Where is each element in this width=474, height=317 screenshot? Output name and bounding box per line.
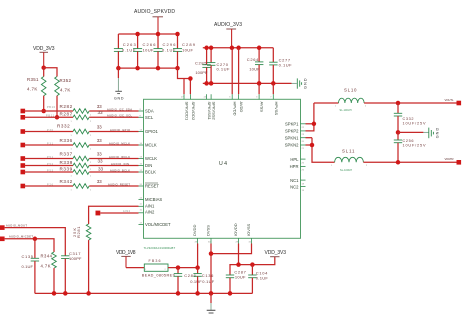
- wire AUDIO_MOUT to C317: [5, 228, 66, 256]
- svg-text:TLV320DAC3100IRHBT: TLV320DAC3100IRHBT: [144, 246, 176, 250]
- ground GND (digital): [207, 293, 216, 313]
- pin IOVSS: [246, 223, 252, 243]
- svg-text:4.7K: 4.7K: [27, 86, 37, 91]
- svg-text:0.1UF: 0.1UF: [256, 276, 269, 281]
- svg-text:C263: C263: [123, 42, 137, 47]
- wire AVSS stub from bus: [258, 83, 260, 94]
- wire to sideways ground: [398, 131, 429, 133]
- svg-text:0.1UF: 0.1UF: [202, 279, 215, 284]
- svg-text:MCLK: MCLK: [145, 143, 157, 148]
- port P53 (BCLK row): [21, 169, 54, 174]
- node SPKVDD bottom bus junctions: [116, 66, 180, 71]
- capacitor C256: [394, 132, 426, 162]
- svg-text:R351: R351: [27, 77, 39, 82]
- svg-text:33: 33: [97, 179, 102, 184]
- port VOUTL: [445, 98, 462, 105]
- pin SPKVSS1: [204, 94, 213, 120]
- pin DIN: [139, 163, 153, 168]
- svg-text:100PF: 100PF: [69, 256, 82, 261]
- wire DVDD drop: [197, 244, 199, 268]
- wire SDA row: [24, 110, 138, 112]
- svg-text:AUDIO_RESET: AUDIO_RESET: [108, 182, 130, 186]
- resistor R282: [60, 104, 103, 117]
- svg-text:GPIO1: GPIO1: [145, 129, 158, 134]
- node R352/SCL junction: [55, 115, 60, 120]
- port P26 (RESET row): [21, 183, 54, 188]
- node DVDD junction: [195, 265, 200, 270]
- pin SPKP1: [285, 122, 306, 130]
- svg-text:AUDIO_MCLK: AUDIO_MCLK: [109, 141, 130, 145]
- pin SPKVSS2: [211, 94, 217, 120]
- pin SCL: [139, 115, 154, 120]
- port PB11 (SCL row): [21, 115, 55, 120]
- svg-text:SPKVSS1: SPKVSS1: [207, 102, 212, 121]
- svg-text:HPR: HPR: [290, 164, 299, 169]
- wire SPKP1/SPKP2 join: [306, 103, 314, 131]
- port AUDIO_MOUT: [0, 224, 27, 230]
- node ground bus junctions: [204, 81, 275, 86]
- pin RESET: [139, 183, 160, 189]
- power symbol VDD_3V3 (top-left): [33, 46, 55, 68]
- svg-text:AUDIO_WCLK: AUDIO_WCLK: [109, 155, 130, 159]
- resistor R344: [41, 252, 57, 293]
- ground GND sideways (speaker filter): [429, 128, 440, 139]
- pin DVDD: [192, 225, 198, 244]
- pin MCLK: [139, 143, 157, 148]
- resistor R287: [60, 110, 103, 123]
- svg-text:C136: C136: [202, 273, 214, 278]
- node SPKP junction: [312, 122, 317, 127]
- wire AUDIO_3V3 bus: [203, 47, 273, 49]
- pin SDA: [139, 109, 154, 114]
- port P51 (WCLK row): [21, 156, 54, 161]
- wire WCLK row: [24, 158, 138, 160]
- svg-text:33: 33: [97, 138, 102, 143]
- svg-text:AUDIO_SPKVDD: AUDIO_SPKVDD: [134, 9, 175, 15]
- resistor R337: [60, 151, 103, 164]
- svg-text:BCLK: BCLK: [145, 170, 156, 175]
- capacitor C317: [61, 251, 82, 293]
- svg-text:33: 33: [97, 104, 102, 109]
- node net AUDIO_WCLK: [109, 155, 130, 159]
- wire HPVDD drop: [231, 48, 233, 94]
- svg-text:SL-100UH: SL-100UH: [340, 109, 352, 112]
- capacitor C289: [173, 34, 196, 68]
- node DVSS junction: [209, 251, 214, 256]
- svg-text:0.1UF: 0.1UF: [279, 62, 293, 67]
- svg-text:RESET: RESET: [145, 184, 159, 189]
- node R351/SDA junction: [41, 109, 46, 114]
- svg-text:SL11: SL11: [342, 148, 355, 153]
- svg-text:SPKN2: SPKN2: [285, 143, 299, 148]
- resistor R338: [60, 158, 103, 171]
- node net AUDIO_DIN: [111, 162, 129, 166]
- resistor R351: [27, 68, 46, 111]
- power symbol VDD_3V3 (bottom): [265, 250, 287, 257]
- svg-text:SPKP1: SPKP1: [285, 122, 299, 127]
- svg-text:VDD_3V3: VDD_3V3: [33, 46, 55, 52]
- wire IOVDD bus: [230, 257, 275, 275]
- capacitor C296: [154, 34, 177, 68]
- wire SL11 to VOUTR: [363, 161, 456, 163]
- svg-text:R352: R352: [60, 78, 72, 83]
- svg-text:AUDIO_I2C_SDA: AUDIO_I2C_SDA: [107, 107, 132, 111]
- svg-text:IOVDD: IOVDD: [233, 223, 238, 236]
- node SPKN junction: [310, 143, 315, 148]
- svg-text:C266: C266: [143, 42, 157, 47]
- svg-text:33: 33: [98, 158, 103, 163]
- pin WCLK: [139, 156, 158, 161]
- svg-text:0.1UF: 0.1UF: [190, 279, 202, 284]
- pin NC1: [290, 178, 305, 186]
- wire bottom ground bus: [35, 292, 253, 294]
- pin GPIO1: [139, 129, 159, 134]
- wire IOVDD drop: [238, 244, 240, 265]
- node net AUDIO_I2C_SCL: [107, 114, 133, 118]
- capacitor C135: [22, 239, 40, 294]
- pin NC2: [290, 184, 305, 192]
- svg-text:C296: C296: [163, 42, 177, 47]
- wire AIN1 to R281: [89, 206, 139, 224]
- svg-text:VOL/MICDET: VOL/MICDET: [145, 222, 171, 227]
- svg-text:25K: 25K: [72, 228, 77, 237]
- svg-text:R339: R339: [60, 166, 73, 171]
- pin AVDD: [239, 94, 245, 112]
- pin HPR: [290, 164, 306, 172]
- ground GND below SPKVDD caps: [114, 68, 124, 101]
- svg-text:10UF/25V: 10UF/25V: [403, 144, 426, 148]
- wire AUDIO_MICDET to R344: [5, 239, 54, 252]
- svg-text:BEAD_0805RES: BEAD_0805RES: [142, 274, 176, 278]
- pin SPKVDD1: [181, 94, 190, 121]
- svg-text:33: 33: [97, 124, 102, 129]
- svg-text:SL-100UH: SL-100UH: [340, 169, 352, 172]
- svg-text:HPL: HPL: [290, 157, 299, 162]
- port P52 (DIN row): [21, 163, 54, 168]
- svg-text:C285: C285: [195, 60, 207, 65]
- pin DVSS: [206, 225, 212, 244]
- svg-text:R338: R338: [60, 160, 73, 165]
- svg-text:VOUTR: VOUTR: [445, 157, 454, 161]
- svg-text:AIN2: AIN2: [145, 210, 155, 215]
- node VDD_3V3 junction: [41, 65, 46, 70]
- wire AIN2: [100, 210, 138, 213]
- pin SPKVDD2: [190, 94, 196, 121]
- wire VDD_3V3 to R352: [44, 68, 57, 77]
- svg-text:AVSS: AVSS: [260, 102, 265, 113]
- wire SPKP to SL10: [314, 102, 339, 104]
- wire GPIO row: [24, 131, 138, 133]
- svg-text:C289: C289: [182, 42, 196, 47]
- svg-text:IOVSS: IOVSS: [246, 223, 251, 236]
- svg-text:AIN2: AIN2: [123, 210, 131, 213]
- inductor SL11: [331, 148, 368, 172]
- svg-text:NC2: NC2: [290, 184, 299, 189]
- power symbol VDD_1V8: [116, 250, 136, 268]
- svg-text:33: 33: [98, 110, 103, 115]
- node net AUDIO_MCLK: [109, 141, 130, 145]
- node net AUDIO_I2C_SDA: [107, 107, 132, 111]
- svg-text:DIN: DIN: [145, 163, 152, 168]
- pin VOL/MICDET: [139, 222, 172, 227]
- power symbol AUDIO_3V3: [214, 22, 242, 48]
- port P30 (GPIO row): [21, 129, 54, 134]
- pin SPKP2: [285, 129, 306, 137]
- wire AUDIO_SPKVDD top bus: [118, 33, 177, 35]
- node net AUDIO_BCLK: [110, 168, 130, 172]
- svg-text:0.1UF: 0.1UF: [217, 66, 231, 71]
- port PB10 (SDA row): [21, 106, 56, 113]
- capacitor C263: [114, 34, 137, 68]
- wire HPVSS stub from bus: [272, 83, 274, 94]
- svg-text:DVDD: DVDD: [192, 225, 197, 236]
- svg-text:AUDIO_3V3: AUDIO_3V3: [214, 22, 242, 28]
- pin AIN1: [139, 204, 155, 209]
- svg-text:GND: GND: [436, 128, 440, 139]
- svg-text:0.1UF: 0.1UF: [22, 264, 34, 269]
- port P31 (MCLK row): [21, 142, 54, 147]
- node ground bus junctions: [52, 291, 233, 296]
- svg-text:100PF: 100PF: [195, 70, 208, 75]
- capacitor C266: [133, 34, 156, 68]
- wire DVSS-IOVSS tie: [211, 244, 252, 254]
- node SPKVDD top bus junctions: [135, 32, 179, 37]
- capacitor C310: [394, 103, 426, 132]
- resistor R352: [55, 77, 72, 118]
- wire DIN row: [24, 165, 138, 167]
- svg-text:10UF: 10UF: [235, 275, 246, 280]
- svg-text:C332: C332: [403, 117, 414, 121]
- svg-text:GND: GND: [114, 97, 124, 101]
- resistor R336: [60, 138, 103, 151]
- svg-text:SPKVDD1: SPKVDD1: [185, 102, 190, 121]
- svg-text:C135: C135: [22, 254, 34, 259]
- svg-text:SPKVSS2: SPKVSS2: [212, 102, 217, 121]
- resistor R339: [60, 166, 104, 177]
- svg-text:SDA: SDA: [145, 109, 154, 114]
- svg-text:10UF: 10UF: [182, 48, 194, 53]
- pin BCLK: [139, 170, 157, 175]
- svg-text:33: 33: [97, 151, 102, 156]
- svg-text:C256: C256: [403, 139, 414, 143]
- svg-text:AUDIO_BCLK: AUDIO_BCLK: [110, 168, 130, 172]
- capacitor C104: [248, 265, 268, 294]
- svg-text:R282: R282: [60, 104, 73, 109]
- pin HPL: [290, 157, 305, 165]
- pin SPKN2: [285, 143, 306, 151]
- svg-text:SPKVDD2: SPKVDD2: [191, 102, 196, 121]
- node net AUDIO_GPIO: [110, 128, 130, 132]
- svg-text:R336: R336: [60, 138, 73, 143]
- svg-text:SPKN1: SPKN1: [285, 135, 299, 140]
- wire MCLK row: [24, 144, 138, 146]
- capacitor C277: [269, 48, 292, 84]
- node AUDIO_3V3 bus junctions: [204, 46, 261, 51]
- svg-text:R337: R337: [60, 152, 73, 157]
- port AIN2: [96, 211, 101, 216]
- svg-text:10UF: 10UF: [143, 48, 155, 53]
- wire SPKN1/SPKN2 join: [306, 138, 335, 163]
- svg-text:AUDIO_MICDET: AUDIO_MICDET: [9, 234, 33, 238]
- svg-text:WCLK: WCLK: [145, 156, 157, 161]
- svg-text:4.7K: 4.7K: [60, 87, 70, 92]
- wire RESET row: [24, 185, 138, 187]
- wire VDD_1V8 to FB36: [126, 267, 144, 269]
- svg-text:VDD_1V8: VDD_1V8: [116, 250, 136, 256]
- wire AUDIO_SPKVDD bottom bus: [118, 67, 177, 69]
- capacitor C270: [207, 48, 230, 84]
- node filter mid junction: [396, 130, 401, 135]
- power symbol AUDIO_SPKVDD: [134, 9, 175, 34]
- svg-text:R332: R332: [57, 124, 70, 129]
- svg-text:R342: R342: [60, 179, 73, 184]
- wire analog ground bus: [203, 82, 297, 84]
- pin MICBIAS: [139, 197, 163, 202]
- svg-text:AUDIO_GPIO: AUDIO_GPIO: [110, 128, 130, 132]
- port AUDIO_MICDET: [0, 234, 33, 241]
- svg-text:AUDIO_I2C_SCL: AUDIO_I2C_SCL: [107, 114, 133, 118]
- wire DVSS drop: [210, 244, 212, 294]
- capacitor C288: [174, 268, 202, 294]
- svg-text:R344: R344: [41, 254, 53, 259]
- wire BCLK row: [24, 171, 138, 173]
- pin AIN2: [139, 210, 155, 215]
- svg-text:10UF/25V: 10UF/25V: [403, 122, 426, 126]
- node C256 bottom junction: [396, 160, 401, 165]
- node net AUDIO_RESET: [108, 182, 130, 186]
- resistor R281: [72, 224, 91, 293]
- svg-text:VDD_3V3: VDD_3V3: [265, 250, 287, 256]
- resistor R332: [57, 124, 102, 138]
- node C135 branch junction: [33, 237, 38, 242]
- wire SL10 to VOUTL: [364, 102, 456, 104]
- pin HPVSS: [270, 94, 279, 115]
- svg-text:R287: R287: [60, 112, 73, 117]
- svg-text:SCL: SCL: [145, 115, 154, 120]
- resistor R342: [60, 179, 103, 192]
- pin AVSS: [256, 94, 265, 112]
- svg-text:DVSS: DVSS: [206, 225, 211, 236]
- svg-text:AVDD: AVDD: [239, 102, 244, 113]
- inductor SL10: [335, 88, 367, 112]
- svg-text:10UF: 10UF: [249, 66, 260, 71]
- svg-text:AUDIO_DIN: AUDIO_DIN: [111, 162, 129, 166]
- svg-text:NC1: NC1: [290, 178, 299, 183]
- wire SCL row: [24, 116, 138, 118]
- pin SPKN1: [285, 135, 306, 143]
- svg-text:HPVSS: HPVSS: [274, 102, 279, 116]
- capacitor C264: [247, 48, 264, 84]
- node FB36 output junction: [176, 265, 181, 270]
- wire AVDD drop: [238, 48, 240, 94]
- svg-text:FB36: FB36: [149, 259, 161, 263]
- svg-text:VOUTL: VOUTL: [445, 98, 454, 102]
- capacitor C285: [195, 48, 211, 84]
- svg-text:AIN1: AIN1: [145, 204, 155, 209]
- svg-text:SPKP2: SPKP2: [285, 129, 299, 134]
- port VOUTR: [445, 157, 462, 165]
- svg-text:SL10: SL10: [344, 88, 357, 93]
- svg-text:HPVDD: HPVDD: [233, 102, 238, 116]
- svg-text:MICBIAS: MICBIAS: [145, 197, 162, 202]
- node SL10 output junction: [396, 101, 401, 106]
- op-amp U4 codec IC body: [144, 99, 301, 250]
- svg-text:4.7K: 4.7K: [41, 263, 51, 268]
- capacitor C136: [193, 268, 214, 294]
- pin IOVDD: [233, 223, 239, 243]
- node IOVDD bus junctions: [236, 262, 254, 267]
- svg-text:PB10: PB10: [47, 106, 56, 109]
- svg-text:C264: C264: [247, 57, 259, 62]
- pin HPVDD: [229, 94, 238, 115]
- wire FB36 to DVDD: [168, 267, 198, 269]
- svg-text:GND: GND: [304, 78, 308, 89]
- wire SPKVDD bus to SPKVDD pins: [178, 68, 191, 94]
- ground GND sideways (right of analog ground bus): [297, 78, 307, 89]
- svg-text:33: 33: [98, 167, 103, 172]
- capacitor C287: [226, 270, 247, 294]
- ferrite bead FB36: [142, 259, 176, 278]
- node SPKVDD2 junction: [188, 76, 193, 81]
